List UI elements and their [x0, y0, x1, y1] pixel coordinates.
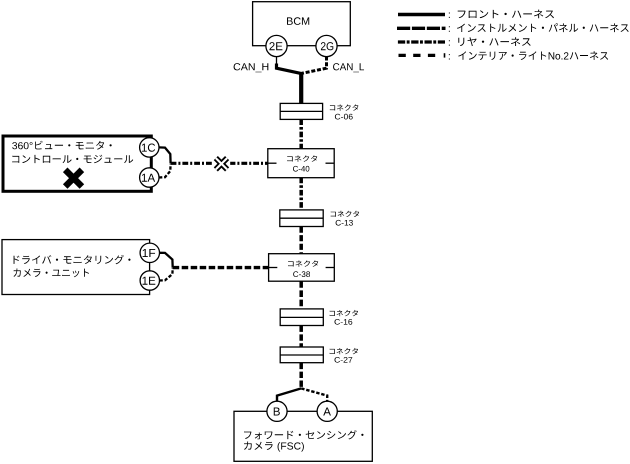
terminal A	[317, 401, 337, 421]
label 360-view module line2	[12, 155, 133, 164]
wire instrument-panel-harness C-16 to C-27	[299, 326, 303, 348]
label CAN_L	[333, 63, 364, 72]
terminal 1C	[140, 138, 159, 157]
C-38 left pin tick	[269, 267, 278, 269]
driver monitoring camera unit box	[2, 240, 150, 295]
label connector C-38	[288, 260, 318, 266]
legend front-harness swatch	[398, 13, 445, 16]
label FSC line1	[244, 430, 363, 439]
wire instrument-panel-harness C-13 to C-38	[299, 227, 303, 254]
wire instrument-panel-harness C-27 to junction	[299, 363, 303, 389]
legend interior-light-no2-harness label	[449, 54, 450, 59]
legend rear-harness label	[449, 40, 450, 45]
legend rear-harness swatch	[398, 40, 445, 43]
label driver monitoring line1	[13, 255, 130, 264]
wire 1F to junction	[159, 253, 172, 268]
legend instrument-panel-harness label	[449, 26, 450, 31]
legend front-harness label	[449, 13, 450, 18]
label connector C-27	[330, 348, 359, 354]
C-40 left pin tick	[268, 162, 277, 164]
C-40 right pin tick	[326, 162, 335, 164]
connector C-38	[269, 254, 335, 282]
terminal 1A	[140, 168, 159, 187]
legend interior-light-no2-harness swatch	[399, 54, 438, 57]
wire junction to B	[277, 388, 301, 401]
wire rear-harness C-06 to C-40	[299, 119, 303, 148]
BCM box	[253, 2, 351, 46]
connector C-16	[280, 309, 323, 326]
failure X mark	[65, 170, 82, 187]
wire dashed junction to A	[301, 388, 327, 401]
connector C-40	[268, 149, 334, 178]
wire CAN_H 2E stub	[276, 57, 278, 65]
legend instrument-panel-harness swatch	[397, 27, 446, 30]
label CAN_H	[234, 63, 269, 72]
wire 1E dashed to junction	[159, 268, 172, 281]
terminal 1F	[140, 243, 159, 262]
wire rear-harness C-40 to C-13	[299, 178, 303, 210]
connector C-06	[280, 103, 322, 119]
label FSC line2	[244, 442, 304, 452]
C-38 right pin tick	[326, 267, 335, 269]
terminal B	[267, 401, 287, 421]
label connector C-13	[331, 211, 360, 217]
terminal 2E	[266, 35, 287, 56]
connector C-27	[280, 347, 323, 363]
wire 1A dashed to junction	[159, 164, 171, 178]
terminal 2G	[316, 35, 337, 56]
label driver monitoring line2	[13, 269, 88, 278]
forward sensing camera box	[234, 411, 372, 461]
wire instrument-panel-harness C-38 to C-16	[299, 281, 303, 309]
label 360-view module line1	[12, 141, 112, 150]
wire CAN_H front-harness 2E to junction	[277, 64, 301, 74]
terminal 1E	[140, 271, 159, 290]
360-view monitor control module box	[3, 136, 151, 191]
cut X symbol on wire	[213, 155, 231, 172]
label connector C-06	[330, 104, 359, 110]
BCM label	[287, 17, 309, 25]
label connector C-40	[287, 155, 317, 161]
wire instrument-panel-harness junction to C-38	[173, 266, 269, 269]
connector C-13	[280, 210, 323, 227]
wire rear-harness junction to C-40	[171, 162, 268, 165]
wire 1C to junction	[159, 147, 171, 163]
label connector C-16	[330, 310, 359, 316]
wire front-harness junction to C-06	[299, 72, 303, 104]
wire CAN_L 2G dashed to junction	[302, 57, 327, 74]
